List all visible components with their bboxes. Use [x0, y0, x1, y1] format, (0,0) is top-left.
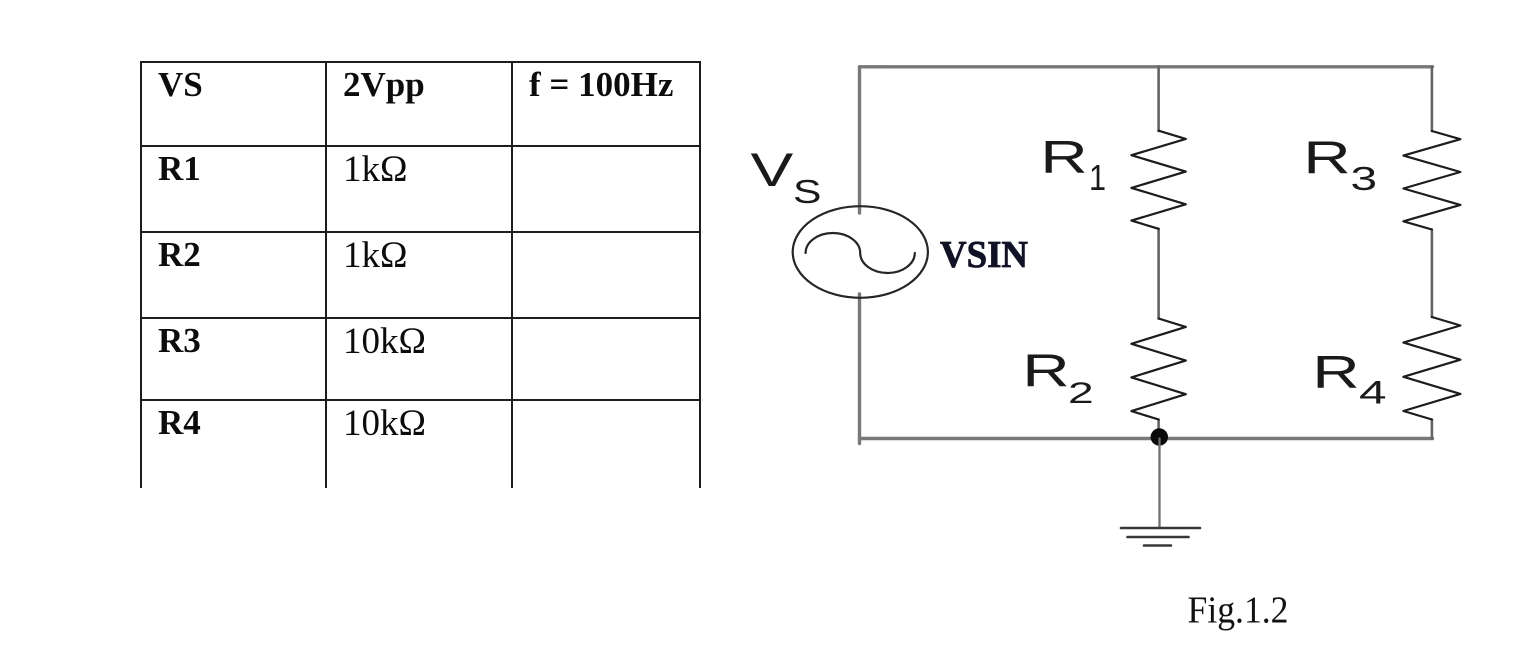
resistor R3 (zigzag) [1403, 131, 1460, 230]
wire: middle branch bottom lead to node [1157, 420, 1160, 439]
wire: left vertical, source top lead [858, 67, 861, 213]
svg-text:R: R [1312, 347, 1359, 398]
resistor R2 (zigzag) [1131, 319, 1185, 420]
svg-text:R: R [1303, 133, 1350, 184]
label R3 [1303, 133, 1377, 197]
resistor R1 (zigzag) [1131, 131, 1185, 229]
svg-text:V: V [751, 143, 794, 196]
svg-text:3: 3 [1351, 160, 1378, 197]
table of component values [140, 61, 701, 488]
wire: bottom rail [860, 437, 1433, 440]
label R2 [1022, 346, 1093, 410]
wire: top rail [860, 65, 1433, 68]
svg-text:2: 2 [1068, 377, 1094, 410]
wire: ground stem [1158, 439, 1160, 529]
svg-text:S: S [793, 173, 821, 211]
svg-text:4: 4 [1359, 374, 1387, 410]
wire: left vertical, source bottom lead [858, 294, 861, 444]
label Vs (node name) [751, 143, 822, 211]
svg-text:1: 1 [1089, 159, 1106, 199]
voltage source VS (VSIN) symbol [793, 206, 928, 298]
wire: right branch between R3 and R4 [1431, 230, 1434, 318]
label R4 [1312, 347, 1386, 410]
wire: right branch top lead [1431, 67, 1434, 132]
wire: right branch bottom lead [1431, 420, 1434, 439]
wire: middle branch top lead [1157, 67, 1160, 132]
ground symbol [1121, 528, 1200, 546]
svg-text:VSIN: VSIN [940, 234, 1028, 276]
svg-text:R: R [1040, 132, 1087, 183]
svg-text:Fig.1.2: Fig.1.2 [1188, 590, 1289, 632]
resistor R4 (zigzag) [1403, 317, 1460, 420]
node: junction dot at ground tap [1151, 428, 1168, 445]
label R1 [1040, 132, 1106, 198]
svg-text:R: R [1022, 346, 1069, 397]
wire: middle branch between R1 and R2 [1157, 229, 1160, 319]
